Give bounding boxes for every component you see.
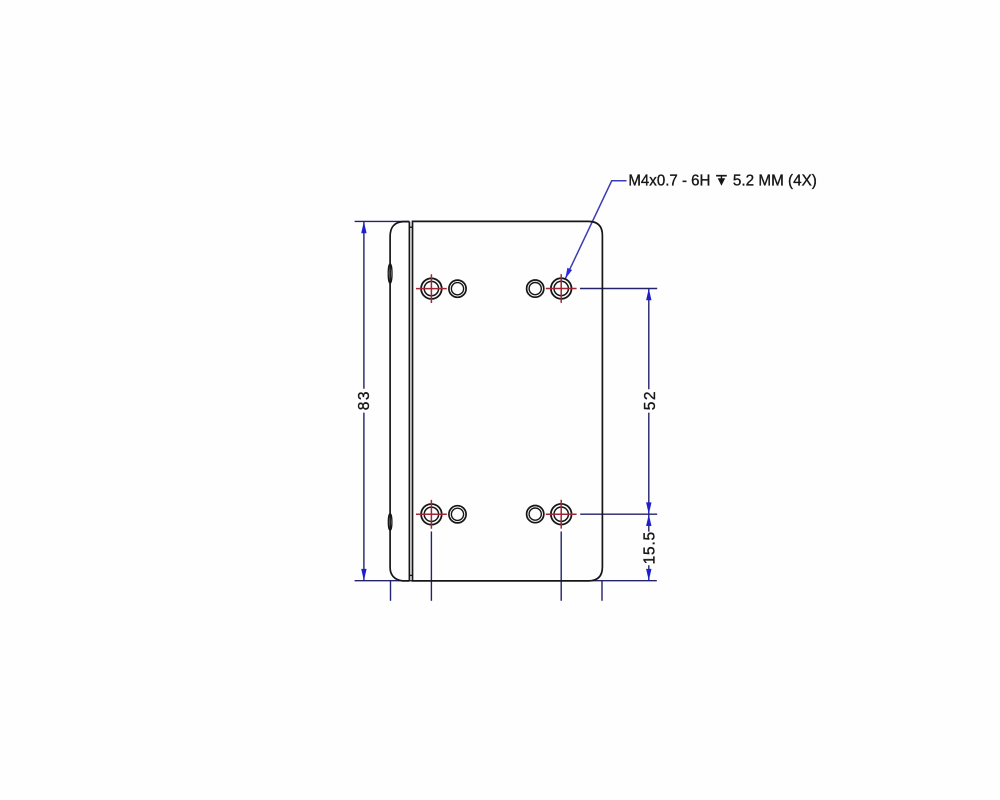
threaded hole bottom-left outer xyxy=(421,504,442,525)
dimension 15.5 arrow top xyxy=(646,514,651,526)
threaded hole bottom-left inner xyxy=(424,507,438,521)
dimension 15.5 arrow bottom xyxy=(646,569,651,581)
clearance hole bottom-left inner xyxy=(451,508,463,520)
leader arrowhead xyxy=(565,268,572,279)
extension line below strip left edge xyxy=(390,581,392,601)
svg-text:52: 52 xyxy=(642,390,659,410)
main plate outline xyxy=(413,221,603,581)
depth symbol xyxy=(716,175,727,177)
clearance hole bottom-right outer xyxy=(527,505,544,522)
threaded hole top-left outer xyxy=(421,278,442,299)
extension line from top-right hole xyxy=(580,288,657,290)
clearance hole bottom-left outer xyxy=(449,506,466,523)
dimension 52 arrow top xyxy=(646,289,651,301)
dimension 83 arrow top xyxy=(361,221,366,233)
clearance hole top-left inner xyxy=(451,283,463,295)
threaded hole top-right outer xyxy=(551,278,572,299)
clearance hole top-right inner xyxy=(529,283,541,295)
svg-text:5.2 MM (4X): 5.2 MM (4X) xyxy=(733,173,817,190)
threaded hole bottom-right outer xyxy=(551,504,572,525)
extension line below plate right edge xyxy=(601,581,603,601)
extension line from bottom-right hole xyxy=(580,513,657,515)
clearance hole top-left outer xyxy=(449,280,466,297)
threaded hole bottom-right centermark xyxy=(546,500,577,529)
svg-text:M4x0.7 - 6H: M4x0.7 - 6H xyxy=(628,173,710,190)
svg-text:15.5: 15.5 xyxy=(642,531,659,564)
bottom extension line full width xyxy=(355,580,657,582)
dimension 15.5 line xyxy=(648,514,650,581)
extension line below right hole column xyxy=(560,532,562,601)
dimension 83 arrow bottom xyxy=(361,569,366,581)
threaded hole top-left centermark xyxy=(416,274,447,303)
dimension 52 line xyxy=(648,289,650,515)
svg-text:83: 83 xyxy=(356,390,373,410)
strip (side flange) outline xyxy=(390,222,409,581)
strip left-edge bump lower xyxy=(388,514,392,530)
leader line to top-right threaded hole xyxy=(565,181,626,279)
extension line below left hole column xyxy=(430,532,432,601)
clearance hole bottom-right inner xyxy=(529,508,541,520)
threaded hole top-right inner xyxy=(554,281,568,295)
tick joining strip and plate top xyxy=(409,226,412,228)
dimension 52 arrow bottom xyxy=(646,502,651,514)
clearance hole top-right outer xyxy=(527,280,544,297)
threaded hole bottom-right inner xyxy=(554,507,568,521)
dimension 83 extension line top xyxy=(355,220,410,222)
threaded hole bottom-left centermark xyxy=(416,500,447,529)
tick joining strip and plate bottom xyxy=(409,574,412,576)
threaded hole top-right centermark xyxy=(546,274,577,303)
dimension 83 line xyxy=(363,221,365,580)
threaded hole top-left inner xyxy=(424,281,438,295)
strip left-edge bump upper xyxy=(388,264,392,283)
strip right edge xyxy=(408,222,410,581)
